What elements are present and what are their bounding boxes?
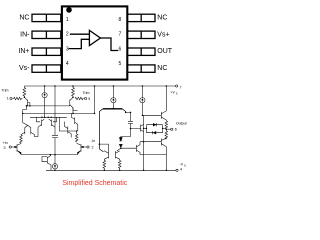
- wire H2: [23, 112, 95, 114]
- wire trim-right collector to H2: [72, 108, 74, 114]
- resistor trim1 horizontal: [13, 97, 23, 100]
- resistor drain right: [75, 131, 78, 142]
- pin pad 6 right: [127, 48, 155, 55]
- op-amp A1 triangle: [89, 30, 100, 45]
- -Vs rail: [46, 169, 176, 171]
- pin pad 3 left: [32, 48, 61, 55]
- pin pad 2 left: [32, 31, 61, 38]
- terminal +In pin3: [9, 146, 11, 148]
- cascode pair QC1 QC2: [38, 119, 55, 130]
- current source I3: [141, 86, 143, 115]
- wire cascode to mirror link: [35, 130, 39, 137]
- resistor trim-right vertical: [72, 86, 75, 97]
- svg-text:4: 4: [66, 61, 69, 67]
- mirror pair QM: [21, 118, 35, 134]
- capacitor C2: [126, 112, 133, 128]
- svg-text:4: 4: [180, 167, 182, 171]
- wire cap node: [121, 129, 141, 138]
- svg-text:3: 3: [66, 46, 69, 52]
- svg-text:Vs+: Vs+: [157, 31, 169, 38]
- JFET J2 -In: [77, 143, 87, 154]
- svg-text:Output: Output: [176, 121, 187, 125]
- vertical x55 cap column: [52, 86, 58, 155]
- svg-text:5: 5: [88, 97, 90, 101]
- svg-text:-In: -In: [91, 139, 95, 143]
- svg-text:NC: NC: [157, 65, 167, 72]
- diodes D1 D2: [119, 138, 122, 149]
- resistor drain left: [20, 135, 23, 144]
- wire diode stubs2: [144, 127, 167, 129]
- svg-text:Simplified Schematic: Simplified Schematic: [62, 180, 127, 187]
- wire diode stubs: [144, 127, 167, 129]
- wire Q1 collector jog: [23, 106, 27, 119]
- wire fold bus right: [59, 117, 76, 131]
- svg-text:Trim: Trim: [83, 91, 90, 95]
- wire QB base: [140, 141, 161, 143]
- svg-text:7: 7: [119, 32, 122, 38]
- resistor RO1: [165, 121, 168, 129]
- IC body U1: [62, 6, 127, 79]
- pin pad 8 right: [127, 14, 155, 21]
- second stage pair Q3 Q4: [104, 151, 119, 160]
- wire pin2 to inverting input: [70, 33, 90, 35]
- pin pad 7 right: [127, 31, 155, 38]
- wire op-amp output to pin6: [100, 38, 118, 51]
- transistor Q1 left trim PNP: [24, 97, 30, 106]
- transistor Q2nd: [141, 115, 144, 170]
- transistor QT top driver: [161, 86, 166, 121]
- svg-text:1: 1: [66, 17, 69, 23]
- svg-text:Vs-: Vs-: [19, 65, 30, 72]
- terminal trim pin1: [10, 97, 12, 99]
- transistor QB bottom driver: [161, 138, 166, 171]
- wire output: [166, 128, 170, 130]
- svg-text:2: 2: [66, 32, 69, 38]
- svg-text:7: 7: [180, 86, 182, 90]
- wire QT base: [142, 114, 161, 116]
- transistor Q6: [137, 142, 167, 155]
- junction dots: [22, 85, 167, 171]
- svg-text:S: S: [184, 164, 186, 168]
- svg-text:S: S: [176, 92, 178, 96]
- svg-text:IN+: IN+: [18, 48, 29, 55]
- svg-text:2: 2: [92, 145, 94, 149]
- vertical x94.5: [94, 86, 96, 113]
- wire folded-cascode bus: [30, 117, 67, 122]
- pin 1 index dot: [66, 7, 72, 13]
- transistor Q2 right trim PNP: [70, 97, 78, 110]
- pin pad 5 right: [127, 65, 155, 72]
- terminal +Vs pin7: [176, 85, 178, 87]
- diode pair D3 D4: [146, 123, 162, 134]
- pin pad 4 left: [32, 65, 61, 72]
- transistor QF1 right: [71, 113, 78, 131]
- svg-text:1: 1: [7, 97, 9, 101]
- wire base bus H1: [26, 105, 69, 107]
- wire pin3 to non-inverting input: [69, 39, 90, 48]
- svg-text:6: 6: [175, 128, 177, 132]
- resistor emitter right: [118, 160, 121, 170]
- svg-text:Trim: Trim: [2, 89, 9, 93]
- svg-text:6: 6: [119, 46, 122, 52]
- tail current source I4: [54, 155, 56, 171]
- svg-text:8: 8: [119, 17, 122, 23]
- resistor trim5 horizontal: [75, 97, 84, 100]
- terminal trim pin5: [85, 97, 87, 99]
- +Vs rail: [24, 85, 175, 87]
- svg-text:IN-: IN-: [20, 31, 30, 38]
- wire base feed second stage left: [99, 144, 108, 151]
- svg-text:3: 3: [4, 146, 6, 150]
- svg-text:5: 5: [119, 61, 122, 67]
- resistor trim-left vertical: [23, 86, 26, 97]
- resistor RO2: [165, 129, 168, 139]
- current source I2: [112, 86, 114, 108]
- transistor Qtail: [42, 155, 51, 171]
- terminal -In pin2: [87, 146, 89, 148]
- terminal -Vs pin4: [176, 169, 178, 171]
- svg-text:NC: NC: [19, 14, 29, 21]
- pin pad 1 left: [32, 14, 61, 21]
- svg-text:NC: NC: [157, 14, 167, 21]
- svg-text:OUT: OUT: [157, 48, 173, 55]
- wire source bus: [21, 154, 78, 156]
- terminal output pin6: [171, 128, 173, 130]
- cascode center pair: [99, 108, 125, 152]
- svg-text:+In: +In: [3, 141, 8, 145]
- current source I1: [44, 86, 46, 117]
- wire diode node: [117, 148, 137, 151]
- resistor emitter left: [103, 160, 106, 170]
- transistor QF2 right: [64, 122, 71, 138]
- JFET J1 +In: [11, 144, 21, 155]
